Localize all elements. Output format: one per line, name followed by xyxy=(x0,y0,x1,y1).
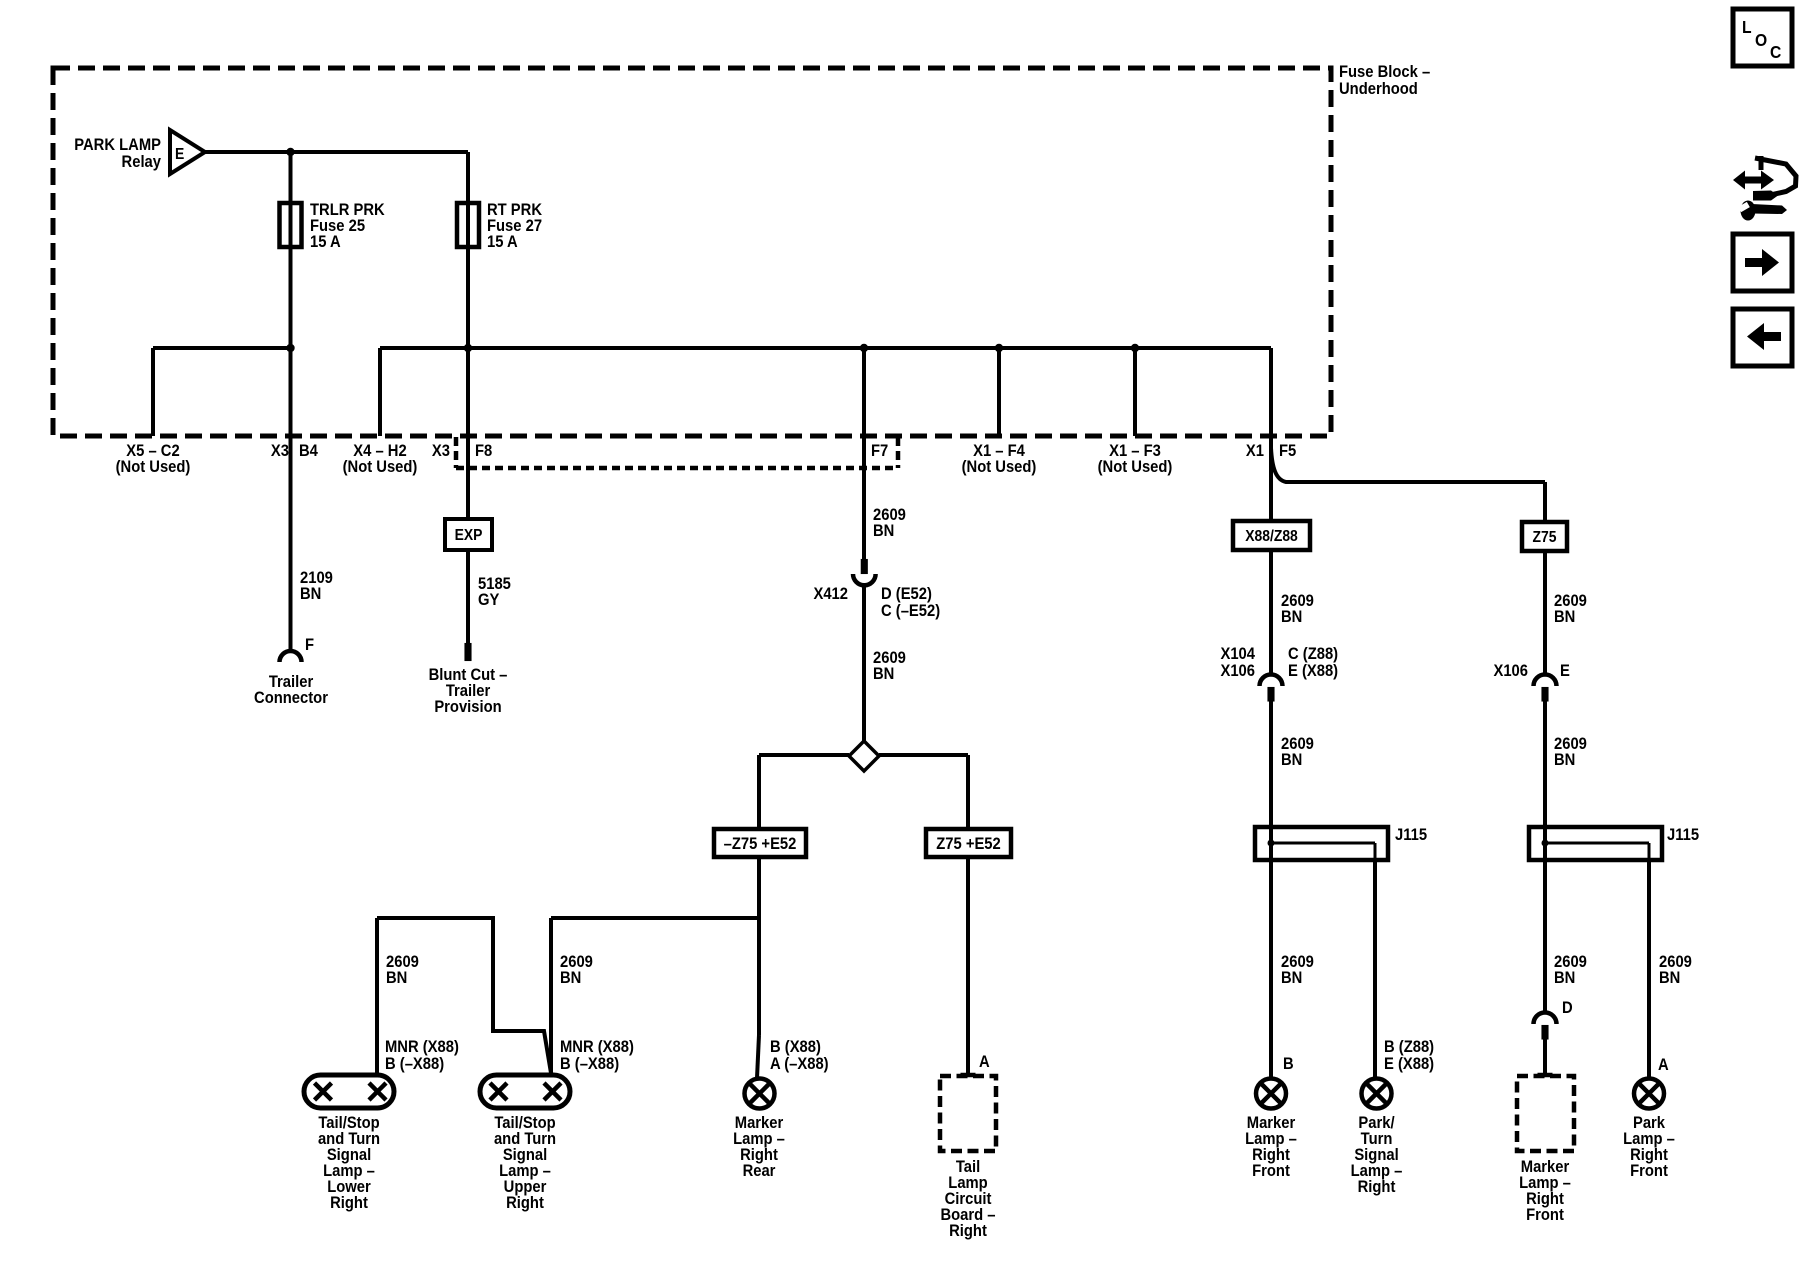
svg-text:E: E xyxy=(175,145,184,163)
wire F8 to blunt cut xyxy=(466,348,470,643)
label Tail/Stop and Turn Signal Lamp Upper Right xyxy=(494,1114,556,1212)
svg-text:E: E xyxy=(1560,662,1570,680)
label Marker Lamp Right Front xyxy=(1245,1114,1297,1180)
svg-text:Right: Right xyxy=(1358,1178,1396,1196)
terminal blunt cut bar xyxy=(465,643,472,661)
svg-text:J115: J115 xyxy=(1667,826,1699,844)
svg-text:BN: BN xyxy=(1281,608,1302,626)
svg-text:MNR (X88): MNR (X88) xyxy=(560,1038,634,1056)
option box Z75 +E52 xyxy=(926,829,1011,857)
wire splice to left branch xyxy=(759,753,849,757)
label TRLR PRK Fuse 25 15 A xyxy=(310,201,385,251)
svg-text:BN: BN xyxy=(300,585,321,603)
node X5-C2 label xyxy=(116,442,191,476)
wire F7 2609 BN upper xyxy=(862,348,866,559)
wire down to marker lamp right rear xyxy=(757,918,759,1078)
relay PARK LAMP Relay triangle terminal E xyxy=(170,130,205,174)
label terminal E X106 xyxy=(1560,662,1570,680)
svg-text:F: F xyxy=(305,636,314,654)
node X3 F8 label xyxy=(432,442,492,460)
connector row dashed sub-box X3/F8 to F7 xyxy=(456,437,898,468)
fuse TRLR PRK Fuse 25 15 A xyxy=(280,203,302,247)
svg-text:BN: BN xyxy=(1554,969,1575,987)
label wire 2609 BN above X104 xyxy=(1281,592,1314,626)
svg-text:Front: Front xyxy=(1526,1206,1564,1224)
svg-text:GY: GY xyxy=(478,591,500,609)
splice pack X88/Z88 box xyxy=(1233,521,1310,550)
wire stub X5-C2 not used xyxy=(151,348,155,436)
wire daisy chain Z path to lower lamp feed xyxy=(377,918,551,1073)
wire splice to right branch xyxy=(879,753,968,757)
icon harness routing double arrow with wrench xyxy=(1733,156,1796,221)
wire Z75 down to tail lamp circuit board xyxy=(966,857,970,1073)
label X106 connector name xyxy=(1493,662,1528,680)
wire 2609 BN X88/Z88 to X104 xyxy=(1269,550,1273,675)
svg-text:L: L xyxy=(1742,17,1752,37)
svg-text:BN: BN xyxy=(1281,969,1302,987)
wire 2609 BN Z75 to X106 xyxy=(1543,551,1547,675)
connector X104/X106 male bar terminal xyxy=(1268,687,1275,702)
wire 2609 BN X104 to J115 left xyxy=(1269,701,1273,827)
wire vertical to tail stop lower lamp xyxy=(375,918,379,1075)
svg-text:X88/Z88: X88/Z88 xyxy=(1245,527,1298,545)
wire D to marker lamp right front dashed box xyxy=(1543,1039,1547,1073)
label wire 2609 BN above X106 xyxy=(1554,592,1587,626)
fuse RT PRK Fuse 27 15 A xyxy=(457,203,479,247)
icon LOC legend box xyxy=(1733,9,1792,66)
svg-text:X106: X106 xyxy=(1493,662,1528,680)
label wire 2609 BN below X412 xyxy=(873,649,906,683)
svg-text:Underhood: Underhood xyxy=(1339,80,1418,98)
svg-text:(Not Used): (Not Used) xyxy=(343,458,418,476)
svg-text:BN: BN xyxy=(873,522,894,540)
svg-text:(Not Used): (Not Used) xyxy=(1098,458,1173,476)
lamp Marker Lamp Right Rear xyxy=(745,1079,775,1109)
label RT PRK Fuse 27 15 A xyxy=(487,201,542,251)
label terminal F xyxy=(305,636,314,654)
fuse block underhood dashed boundary xyxy=(53,68,1331,436)
junction block J115 right xyxy=(1529,827,1662,860)
svg-text:BN: BN xyxy=(1281,751,1302,769)
icon forward arrow box xyxy=(1733,234,1792,291)
wire stub X1-F4 not used xyxy=(997,348,1001,436)
svg-text:D: D xyxy=(1562,999,1573,1017)
svg-text:C: C xyxy=(1770,42,1781,62)
wire stub X1-F3 not used xyxy=(1133,348,1137,436)
component dashed box Marker Lamp Right Front xyxy=(1517,1076,1574,1151)
node X1 F5 label xyxy=(1246,442,1296,460)
label terminals MNR (X88) B (-X88) lower lamp xyxy=(385,1038,459,1073)
svg-text:Fuse Block –: Fuse Block – xyxy=(1339,63,1430,81)
label terminal D xyxy=(1562,999,1573,1017)
label terminals B (X88) A (-X88) marker rear xyxy=(770,1038,829,1073)
label terminals MNR (X88) B (-X88) upper lamp xyxy=(560,1038,634,1073)
svg-text:X106: X106 xyxy=(1220,662,1255,680)
svg-text:C (Z88): C (Z88) xyxy=(1288,645,1338,663)
connector X104/X106 female arc xyxy=(1260,675,1283,687)
lamp Tail/Stop and Turn Signal Lamp Upper Right xyxy=(480,1075,570,1108)
svg-text:J115: J115 xyxy=(1395,826,1427,844)
connector X412 female arc xyxy=(853,574,876,585)
wire fuse 27 output bus xyxy=(380,346,1271,350)
svg-text:Connector: Connector xyxy=(254,689,328,707)
svg-text:PARK LAMP: PARK LAMP xyxy=(74,136,161,154)
label Tail Lamp Circuit Board Right xyxy=(940,1158,995,1240)
connector X412 male bar terminal xyxy=(861,559,868,574)
svg-text:A (–X88): A (–X88) xyxy=(770,1055,829,1073)
svg-text:Right: Right xyxy=(506,1194,544,1212)
label X104 X106 connector names xyxy=(1220,645,1255,680)
svg-text:Provision: Provision xyxy=(434,698,501,716)
svg-text:X3: X3 xyxy=(271,442,289,460)
svg-text:B (Z88): B (Z88) xyxy=(1384,1038,1434,1056)
wire 2609 BN below X412 xyxy=(862,585,866,742)
svg-text:E (X88): E (X88) xyxy=(1288,662,1338,680)
connector D female arc xyxy=(1534,1013,1557,1025)
node X1-F4 label xyxy=(962,442,1037,476)
wire 2109 BN to trailer connector xyxy=(289,348,293,651)
svg-text:15 A: 15 A xyxy=(310,233,341,251)
svg-text:B (X88): B (X88) xyxy=(770,1038,821,1056)
svg-text:BN: BN xyxy=(1554,608,1575,626)
lamp Park Lamp Right Front xyxy=(1634,1079,1664,1109)
wire feed down to Z75 box xyxy=(1543,482,1547,522)
svg-text:Z75 +E52: Z75 +E52 xyxy=(936,835,1001,853)
label wire 2609 BN above J115 left xyxy=(1281,735,1314,769)
svg-text:A: A xyxy=(1658,1056,1669,1074)
svg-text:X104: X104 xyxy=(1220,645,1255,663)
label terminal A tail board xyxy=(979,1053,990,1071)
label wire 2109 BN xyxy=(300,569,333,603)
option box -Z75 +E52 xyxy=(714,829,806,857)
svg-text:Right: Right xyxy=(949,1222,987,1240)
node X1-F3 label xyxy=(1098,442,1173,476)
junction dot F8 tap xyxy=(464,344,472,352)
svg-text:B: B xyxy=(1283,1055,1294,1073)
label X412 xyxy=(813,585,848,603)
label wire 2609 BN above X412 xyxy=(873,506,906,540)
svg-text:D (E52): D (E52) xyxy=(881,585,932,603)
junction dot fuse 25 output xyxy=(286,344,294,352)
svg-text:X3: X3 xyxy=(432,442,450,460)
svg-text:BN: BN xyxy=(386,969,407,987)
svg-text:X1: X1 xyxy=(1246,442,1264,460)
svg-text:O: O xyxy=(1755,30,1767,50)
wire relay output E to fuses xyxy=(205,150,468,154)
wire X1 F5 down to X88/Z88 xyxy=(1269,348,1273,521)
svg-text:(Not Used): (Not Used) xyxy=(962,458,1037,476)
wire 2609 BN X106 to J115 right xyxy=(1543,701,1547,827)
label Marker Lamp Right Front dashed xyxy=(1519,1158,1571,1224)
connector X106 female arc xyxy=(1534,675,1557,687)
component dashed box Tail Lamp Circuit Board Right xyxy=(940,1076,996,1151)
wire J115 right branch to park lamp xyxy=(1647,858,1651,1078)
label wire 2609 BN above D xyxy=(1554,953,1587,987)
svg-text:BN: BN xyxy=(1554,751,1575,769)
label terminals D (E52) C (-E52) xyxy=(881,585,940,620)
label Tail/Stop and Turn Signal Lamp Lower Right xyxy=(318,1114,380,1212)
label terminals C (Z88) E (X88) xyxy=(1288,645,1338,680)
wire curve branch F5 to Z75 feed xyxy=(1271,448,1545,482)
label terminals B (Z88) E (X88) park/turn xyxy=(1384,1038,1434,1073)
svg-text:B4: B4 xyxy=(299,442,318,460)
svg-text:EXP: EXP xyxy=(455,526,483,544)
label wire 2609 BN lower tail lamp xyxy=(386,953,419,987)
wire to Z75 +E52 option box xyxy=(966,755,970,829)
svg-text:E (X88): E (X88) xyxy=(1384,1055,1434,1073)
junction dot at relay feed split xyxy=(286,148,294,156)
junction dot X1-F4 tap xyxy=(995,344,1003,352)
wire daisy chain horizontal to tail lamps xyxy=(551,916,759,920)
label Park Lamp Right Front xyxy=(1623,1114,1675,1180)
splice EXP box xyxy=(445,519,492,550)
label wire 2609 BN marker front xyxy=(1281,953,1314,987)
svg-text:C (–E52): C (–E52) xyxy=(881,602,940,620)
label terminal A park lamp xyxy=(1658,1056,1669,1074)
svg-text:BN: BN xyxy=(1659,969,1680,987)
label wire 2609 BN above J115 right xyxy=(1554,735,1587,769)
label wire 2609 BN upper tail lamp xyxy=(560,953,593,987)
wire fuse 25 output bus xyxy=(153,346,291,350)
node X4-H2 label xyxy=(343,442,418,476)
svg-text:F5: F5 xyxy=(1279,442,1296,460)
wire RT PRK fuse branch vertical xyxy=(466,152,470,348)
lamp Tail/Stop and Turn Signal Lamp Lower Right xyxy=(304,1075,394,1108)
label Marker Lamp Right Rear xyxy=(733,1114,785,1180)
wire J115 to marker lamp right front xyxy=(1269,860,1273,1078)
svg-text:Front: Front xyxy=(1252,1162,1290,1180)
label terminal B marker front xyxy=(1283,1055,1294,1073)
lamp Park/Turn Signal Lamp Right xyxy=(1362,1079,1392,1109)
svg-text:Z75: Z75 xyxy=(1533,528,1557,546)
svg-text:(Not Used): (Not Used) xyxy=(116,458,191,476)
svg-text:BN: BN xyxy=(560,969,581,987)
label Blunt Cut - Trailer Provision xyxy=(429,666,508,716)
wire J115 branch to park/turn signal lamp xyxy=(1373,858,1377,1078)
label PARK LAMP Relay xyxy=(74,136,161,171)
label Trailer Connector xyxy=(254,673,328,707)
label J115 right xyxy=(1667,826,1699,844)
node F7 label xyxy=(871,442,888,460)
svg-text:Right: Right xyxy=(330,1194,368,1212)
svg-text:–Z75 +E52: –Z75 +E52 xyxy=(724,835,797,853)
terminal bar at tail lamp circuit board A xyxy=(961,1073,976,1078)
wire -Z75 down to junction xyxy=(757,857,761,918)
junction dot F7 tap xyxy=(860,344,868,352)
node X3 B4 label xyxy=(271,442,318,460)
label Park/Turn Signal Lamp Right xyxy=(1351,1114,1403,1196)
label J115 left xyxy=(1395,826,1427,844)
junction dot X1-F3 tap xyxy=(1131,344,1139,352)
svg-text:F8: F8 xyxy=(475,442,492,460)
connector X106 male bar terminal xyxy=(1542,687,1549,702)
connector half trailer connector cavity F xyxy=(280,651,302,662)
svg-text:B (–X88): B (–X88) xyxy=(385,1055,444,1073)
splice Z75 box xyxy=(1522,522,1567,551)
svg-text:15 A: 15 A xyxy=(487,233,518,251)
connector D male bar terminal xyxy=(1542,1025,1549,1040)
wire stub X4-H2 not used xyxy=(378,348,382,436)
icon back arrow box xyxy=(1733,309,1792,366)
terminal bar at marker front box xyxy=(1538,1073,1553,1078)
svg-text:X412: X412 xyxy=(813,585,848,603)
label wire 5185 GY xyxy=(478,575,511,609)
label wire 2609 BN park lamp xyxy=(1659,953,1692,987)
wire to -Z75 +E52 option box xyxy=(757,755,761,829)
lamp Marker Lamp Right Front xyxy=(1256,1079,1286,1109)
svg-text:Relay: Relay xyxy=(122,153,162,171)
wire TRLR PRK fuse branch vertical xyxy=(289,152,293,348)
svg-text:B (–X88): B (–X88) xyxy=(560,1055,619,1073)
svg-text:Front: Front xyxy=(1630,1162,1668,1180)
wire J115 right to connector D xyxy=(1543,860,1547,1012)
svg-text:A: A xyxy=(979,1053,990,1071)
splice diamond node xyxy=(849,741,879,771)
wire vertical to tail stop upper lamp xyxy=(549,918,553,1073)
svg-text:BN: BN xyxy=(873,665,894,683)
svg-text:Rear: Rear xyxy=(743,1162,776,1180)
junction block J115 left xyxy=(1255,827,1388,860)
label Fuse Block - Underhood xyxy=(1339,63,1430,98)
svg-text:F7: F7 xyxy=(871,442,888,460)
svg-text:MNR (X88): MNR (X88) xyxy=(385,1038,459,1056)
